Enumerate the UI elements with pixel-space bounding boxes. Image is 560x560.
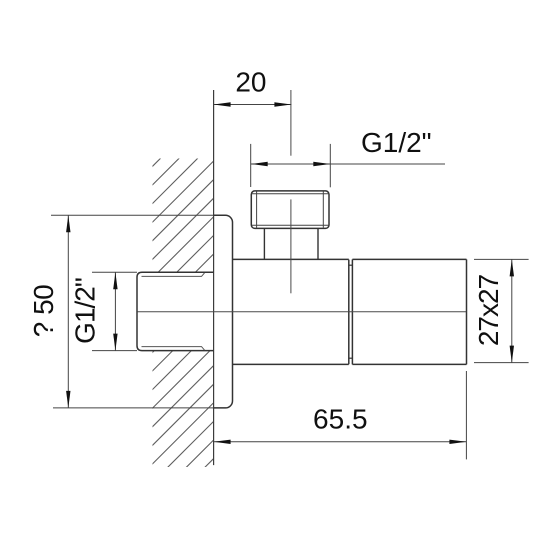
nut bottom chamfer line [252,224,328,226]
dimension ?50 left [51,215,214,408]
dimension 27x27 right [474,259,529,362]
nut facet line right [322,192,324,228]
svg-text:G1/2": G1/2" [361,127,432,158]
escutcheon flange plate [214,215,233,408]
dimension G1/2 top [251,144,445,187]
svg-text:? 50: ? 50 [28,285,59,338]
outlet section 27x27 [352,259,466,364]
inlet pipe G1/2 thread body [137,272,214,350]
vertical centerline through nut [290,199,292,293]
thread minor line top [142,273,205,277]
junction connectors [349,265,353,358]
dimension G1/2 left [92,272,137,350]
handle nut [251,191,329,229]
nut facet line left [256,192,258,228]
dimension 20 [214,104,292,106]
wall hatching [92,67,252,560]
horizontal centerline [138,311,467,313]
svg-text:65.5: 65.5 [313,404,368,435]
stem right edge [317,228,319,259]
svg-text:G1/2": G1/2" [70,278,101,344]
thread minor line bottom [142,347,205,351]
vertical centerline upper segment [290,90,292,156]
nut top chamfer line [252,193,328,195]
wall face line [213,90,215,465]
dimension 65.5 bottom [214,371,467,459]
svg-text:20: 20 [235,67,266,98]
stem left edge [263,228,265,259]
svg-text:27x27: 27x27 [473,274,504,346]
valve body [233,259,349,364]
